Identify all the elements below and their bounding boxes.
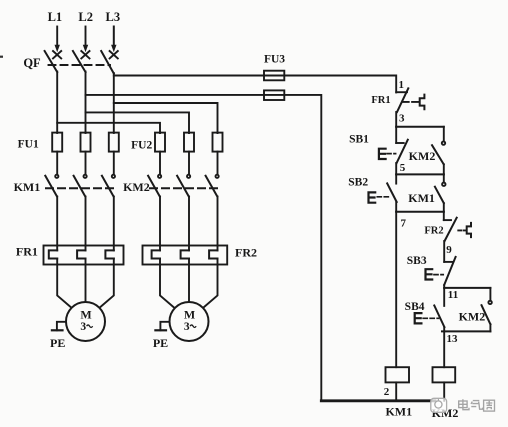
- relay FR1 NC contact: [396, 88, 408, 127]
- wire FR2-2 to motor 2: [188, 259, 190, 303]
- relay FR1 trip link dashed: [403, 101, 419, 103]
- svg-text:3: 3: [399, 112, 405, 124]
- coil KM2: [433, 367, 456, 382]
- wire FR2-1 to motor 2: [160, 259, 175, 309]
- contactor KM2 link dashed: [150, 187, 218, 189]
- breaker QF pole 1 contact cross: [53, 51, 61, 58]
- relay FR1 heater 1: [49, 250, 57, 258]
- svg-text:SB3: SB3: [407, 255, 427, 267]
- node 13 parallel bottom bar: [442, 330, 490, 332]
- watermark text qi: [471, 401, 483, 410]
- node 11 parallel top bar: [444, 287, 490, 289]
- svg-text:SB2: SB2: [348, 177, 368, 189]
- button SB2 link dashed: [377, 196, 389, 198]
- relay FR2 heater 3: [209, 250, 217, 258]
- svg-text:L3: L3: [106, 10, 121, 24]
- svg-text:FU2: FU2: [131, 140, 152, 152]
- button SB4 actuator E: [415, 313, 422, 323]
- button SB2 NO contact: [387, 174, 397, 211]
- svg-text:FR2: FR2: [235, 246, 257, 260]
- svg-text:5: 5: [400, 162, 406, 174]
- relay FR1 enclosure: [44, 246, 124, 265]
- phase L1 incoming arrow: [55, 27, 60, 53]
- motor M1 circle: [66, 302, 105, 341]
- svg-text:KM2: KM2: [409, 149, 436, 163]
- relay FR2 trip link dashed: [458, 229, 466, 231]
- wire FR1-2 to motor 1: [85, 259, 87, 303]
- svg-text:M: M: [80, 308, 91, 322]
- fuse FU2 pole 2: [184, 133, 194, 152]
- svg-text:KM1: KM1: [385, 405, 412, 419]
- contactor KM2 aux contact row1: [432, 127, 445, 175]
- contactor KM1 aux contact row2: [435, 174, 446, 211]
- wire control line 2 from L2 down left side: [86, 95, 322, 401]
- breaker QF pole 3 blade: [101, 51, 114, 74]
- svg-text:L1: L1: [48, 10, 63, 24]
- wire FU1-1 to KM1 contact: [56, 152, 58, 175]
- wire FR1-3 to motor 1: [99, 259, 114, 309]
- svg-text:3: 3: [80, 321, 86, 333]
- wire L2 tap to FU2 pole 2: [86, 112, 190, 133]
- ground PE motor 1: [52, 322, 66, 331]
- svg-text:KM2: KM2: [459, 310, 486, 324]
- svg-text:FU1: FU1: [18, 138, 39, 150]
- fuse FU3 upper: [264, 71, 284, 81]
- wire L1 vertical to FU1: [56, 72, 58, 134]
- contactor KM2 main contact 1: [148, 175, 161, 197]
- wire bottom return: [321, 399, 435, 402]
- wire FU2-1 to KM2 contact: [159, 152, 161, 175]
- contactor KM2 main contact 2: [177, 175, 190, 197]
- node 5 parallel bottom bar: [396, 173, 444, 175]
- button SB2 actuator E: [369, 192, 376, 202]
- fuse FU1 pole 3: [109, 133, 119, 152]
- svg-text:KM2: KM2: [123, 180, 150, 194]
- svg-text:M: M: [184, 308, 195, 322]
- breaker QF pole 2 contact cross: [81, 51, 89, 58]
- wire L1 tap to FU2 pole 1: [57, 123, 160, 133]
- node 3 to node 5 parallel top bar: [396, 126, 444, 128]
- wire FU2-3 to KM2 contact: [217, 152, 219, 175]
- wire L2 vertical to FU1: [85, 72, 87, 134]
- contactor KM1 main contact 3: [102, 175, 115, 197]
- watermark logo icon: [431, 398, 447, 412]
- fuse FU2 pole 1: [155, 133, 165, 152]
- svg-text:3: 3: [184, 321, 190, 333]
- relay FR2 heater 2: [181, 250, 189, 258]
- wire L3 vertical to FU1: [113, 73, 115, 133]
- button SB3 link dashed: [434, 274, 443, 276]
- svg-text:1: 1: [399, 79, 405, 91]
- node 7 parallel bottom bar: [396, 211, 444, 213]
- relay FR2 heater 1: [152, 250, 160, 258]
- wire FU2-2 to KM2 contact: [188, 152, 190, 175]
- wire FU1-3 to KM1 contact: [113, 152, 115, 175]
- svg-text:FU3: FU3: [264, 53, 285, 65]
- fuse FU1 pole 1: [52, 133, 62, 152]
- relay FR1 heater 2: [77, 250, 85, 258]
- contactor KM2 main contact 3: [206, 175, 219, 197]
- svg-text:SB4: SB4: [405, 301, 425, 313]
- svg-text:KM1: KM1: [14, 180, 41, 194]
- svg-text:KM1: KM1: [408, 191, 435, 205]
- wire FR2-3 to motor 2: [203, 259, 218, 309]
- button SB1 NC contact: [396, 127, 408, 175]
- svg-text:7: 7: [400, 217, 406, 229]
- svg-text:FR1: FR1: [371, 95, 390, 106]
- button SB3 NC contact: [444, 257, 455, 288]
- contactor KM1 main contact 1: [45, 175, 58, 197]
- watermark text quan: [484, 400, 495, 411]
- svg-text:QF: QF: [23, 56, 41, 70]
- coil KM1: [386, 367, 410, 382]
- svg-text:13: 13: [447, 333, 459, 345]
- fuse FU1 pole 2: [81, 133, 91, 152]
- svg-text:9: 9: [446, 244, 452, 256]
- contactor KM1 main contact 2: [74, 175, 87, 197]
- contactor KM1 link dashed: [46, 187, 114, 189]
- contactor KM2 aux contact row4: [482, 288, 492, 332]
- button SB1 actuator E: [379, 149, 386, 159]
- svg-text:FR1: FR1: [16, 244, 38, 258]
- wire coil KM1 to bottom: [395, 382, 397, 400]
- breaker QF pole 1 blade: [45, 51, 58, 72]
- wire KM1-1 to FR1: [56, 197, 58, 251]
- wire KM1-3 to FR1: [113, 197, 115, 251]
- fuse FU3 lower: [264, 90, 284, 100]
- wire coil KM2 to bottom: [443, 382, 445, 400]
- svg-text:PE: PE: [50, 336, 65, 350]
- watermark text dian: [459, 399, 469, 410]
- button SB4 link dashed: [423, 317, 438, 319]
- button SB4 NO contact: [434, 288, 444, 332]
- wire KM2-1 to FR2: [159, 197, 161, 251]
- breaker QF mechanical link dashed: [49, 64, 111, 66]
- svg-text:PE: PE: [153, 336, 168, 350]
- wire control line 1 from L3 to node 1: [114, 76, 396, 93]
- button SB1 link dashed: [387, 153, 396, 155]
- ground PE motor 2: [155, 322, 169, 331]
- relay FR1 heater 3: [105, 250, 113, 258]
- wire node 7 down to coil KM1: [395, 212, 397, 368]
- breaker QF pole 3 contact cross: [110, 51, 118, 58]
- wire KM2-2 to FR2: [188, 197, 190, 251]
- svg-text:SB1: SB1: [349, 133, 369, 145]
- svg-text:11: 11: [448, 289, 458, 301]
- button SB3 actuator E: [426, 269, 433, 279]
- scan artifact left edge: [0, 56, 3, 58]
- wire L3 tap to FU2 pole 3: [114, 103, 218, 133]
- phase L3 incoming arrow: [111, 27, 116, 53]
- relay FR1 trip actuator: [420, 95, 425, 110]
- breaker QF pole 2 blade: [73, 51, 86, 72]
- svg-text:2: 2: [384, 386, 390, 398]
- svg-text:FR2: FR2: [424, 226, 443, 237]
- wire FR1-1 to motor 1: [57, 259, 72, 309]
- svg-text:L2: L2: [78, 10, 93, 24]
- relay FR2 enclosure: [143, 246, 228, 265]
- wire FU1-2 to KM1 contact: [85, 152, 87, 175]
- fuse FU2 pole 3: [213, 133, 223, 152]
- phase L2 incoming arrow: [83, 27, 88, 53]
- relay FR2 trip actuator: [467, 223, 471, 237]
- wire KM2-3 to FR2: [217, 197, 219, 251]
- motor M2 circle: [170, 302, 209, 341]
- relay FR2 NC contact: [444, 212, 457, 262]
- wire KM1-2 to FR1: [85, 197, 87, 251]
- wire node 13 down to coil KM2: [443, 331, 445, 367]
